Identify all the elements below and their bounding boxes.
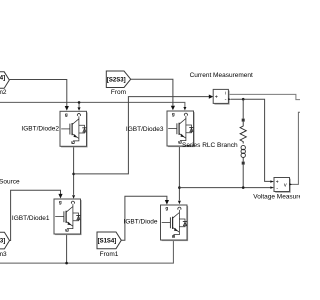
svg-text:Current Measurement: Current Measurement: [190, 72, 253, 79]
RLC bottom port: [242, 162, 245, 165]
wire top rail from source to IGBT/Diode3 collector: [0, 102, 185, 107]
svg-text:From3: From3: [0, 251, 7, 258]
svg-text:From2: From2: [0, 89, 7, 96]
wire From to gate of IGBT/Diode3: [131, 79, 173, 106]
wire current measurement i output: [229, 94, 300, 99]
svg-text:IGBT/Diode3: IGBT/Diode3: [126, 126, 164, 133]
wire load bottom rail to voltage measurement minus: [179, 187, 270, 189]
wire voltage measurement v output: [290, 112, 300, 184]
svg-text:i: i: [225, 90, 226, 95]
Series RLC Branch element: [240, 119, 246, 165]
arrow into D2 gate: [65, 106, 69, 111]
junction CM minus / RLC top: [242, 98, 245, 101]
svg-text:-: -: [225, 97, 227, 103]
IGBT/Diode3 block: [167, 111, 195, 147]
svg-text:IGBT/Diode2: IGBT/Diode2: [21, 126, 59, 133]
arrow into D4 collector: [178, 201, 181, 204]
junction left leg midpoint: [72, 173, 75, 176]
From3 tag: [0, 232, 10, 249]
From2 tag: [0, 72, 9, 89]
arrow into D2 collector: [78, 107, 81, 110]
arrow into D3 gate: [171, 106, 175, 111]
svg-text:[S1S4]: [S1S4]: [98, 239, 117, 245]
svg-text:[S2S3]: [S2S3]: [0, 238, 5, 244]
svg-text:[S2S3]: [S2S3]: [107, 77, 126, 83]
RLC top port: [242, 119, 245, 122]
From1 tag: [97, 232, 121, 249]
wire left leg midpoint D2 emitter to D1 collector: [73, 146, 75, 195]
arrow into D1 collector: [72, 195, 75, 198]
IGBT/Diode1 block: [54, 199, 82, 235]
svg-text:Source: Source: [0, 179, 20, 186]
svg-text:[S1S4]: [S1S4]: [0, 76, 5, 82]
svg-text:Voltage Measurement: Voltage Measurement: [253, 193, 300, 200]
junction top rail / D2 collector: [78, 101, 81, 104]
wire From2 to gate of IGBT/Diode2: [9, 80, 67, 107]
junction RLC bottom / load rail: [242, 186, 245, 189]
resistor: [240, 122, 246, 144]
wire branch to IGBT/Diode2 collector: [78, 102, 80, 107]
Voltage Measurement block: [270, 178, 292, 193]
svg-text:From: From: [111, 89, 126, 96]
wire RLC branch top lead: [242, 99, 244, 118]
wire bottom return rail: [0, 240, 173, 263]
junction right leg midpoint: [178, 186, 181, 189]
IGBT/Diode2 block: [60, 111, 88, 147]
svg-text:+: +: [215, 95, 218, 101]
arrow into current measurement plus: [209, 95, 214, 99]
wire From1 to gate of IGBT/Diode: [121, 196, 167, 240]
Current Measurement block: [213, 89, 231, 104]
wire midpoint to current measurement plus: [74, 97, 210, 174]
From tag: [106, 71, 130, 88]
svg-text:From1: From1: [100, 251, 119, 258]
svg-text:IGBT/Diode1: IGBT/Diode1: [12, 215, 50, 222]
svg-text:IGBT/Diode: IGBT/Diode: [124, 219, 158, 226]
arrow into D4 gate: [165, 200, 169, 205]
wire right leg midpoint D3 emitter to D4 collector: [178, 146, 180, 200]
svg-text:+: +: [276, 179, 279, 185]
wire current measurement minus to voltage measurement plus: [231, 99, 271, 181]
inductor: [241, 145, 245, 149]
wire RLC branch bottom lead: [242, 165, 244, 188]
IGBT/Diode block: [161, 205, 189, 241]
arrow into D1 gate: [58, 194, 62, 199]
svg-text:Series RLC Branch: Series RLC Branch: [182, 142, 238, 149]
arrow into D3 collector: [183, 107, 186, 110]
wire D1 emitter to bottom rail: [66, 234, 68, 263]
svg-text:v: v: [284, 182, 287, 188]
wire From3 to gate of IGBT/Diode1: [10, 190, 61, 240]
junction D1 emitter / bottom rail: [65, 262, 68, 265]
